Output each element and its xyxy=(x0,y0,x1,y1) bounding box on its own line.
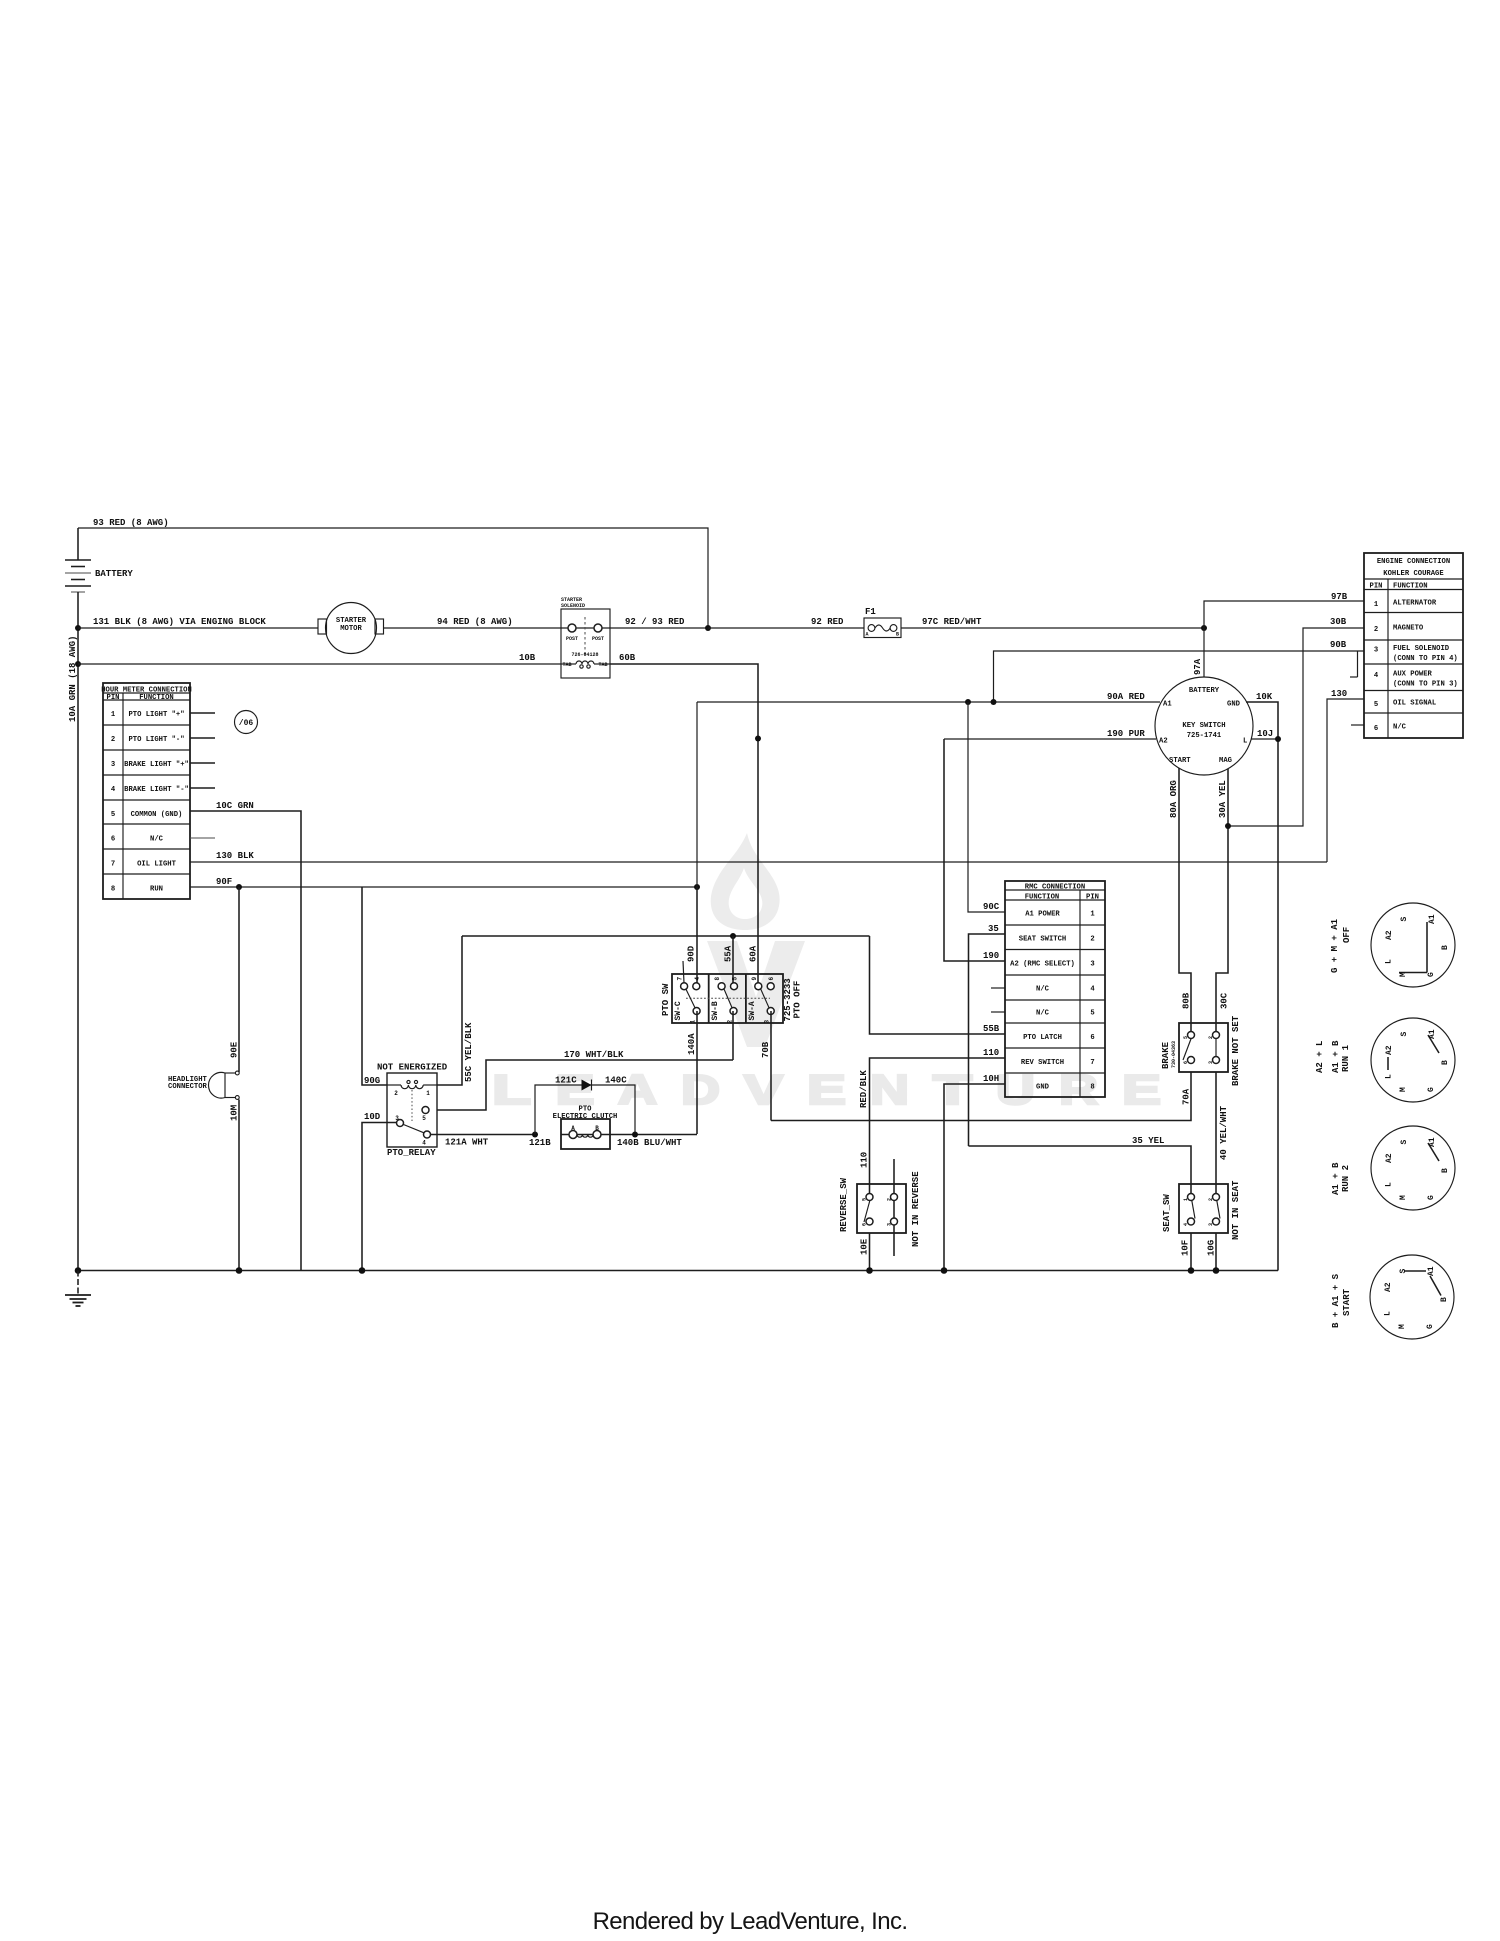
wire 90G xyxy=(362,887,387,1086)
svg-text:8: 8 xyxy=(1090,1084,1094,1092)
svg-text:90C: 90C xyxy=(983,902,1000,912)
svg-text:AUX POWER: AUX POWER xyxy=(1393,671,1433,679)
svg-text:A1: A1 xyxy=(1428,914,1437,924)
svg-text:PTO_RELAY: PTO_RELAY xyxy=(387,1148,436,1158)
svg-text:PTO OFF: PTO OFF xyxy=(793,981,803,1019)
wire 35 stub xyxy=(969,924,1006,1146)
svg-text:60B: 60B xyxy=(619,653,636,663)
svg-text:5: 5 xyxy=(111,811,115,819)
svg-text:N/C: N/C xyxy=(150,836,164,844)
svg-text:L: L xyxy=(1385,959,1394,964)
svg-text:2: 2 xyxy=(886,1198,892,1201)
svg-text:3: 3 xyxy=(1208,1061,1214,1064)
RMC N/C stubs xyxy=(991,988,1005,1012)
svg-text:10C GRN: 10C GRN xyxy=(216,801,254,811)
svg-text:A1: A1 xyxy=(1163,701,1172,709)
fuse F1 xyxy=(864,607,901,638)
svg-text:130: 130 xyxy=(1331,689,1347,699)
wire 55B xyxy=(870,936,1006,1034)
svg-text:725-1741: 725-1741 xyxy=(1187,732,1222,740)
svg-text:55B: 55B xyxy=(983,1024,1000,1034)
svg-text:4: 4 xyxy=(111,786,116,794)
svg-text:N/C: N/C xyxy=(1393,724,1407,732)
wire 40 YEL/WHT xyxy=(1216,1072,1229,1197)
node: bus junction x=944 xyxy=(941,1267,948,1274)
node: battery negative junction xyxy=(75,625,81,631)
svg-text:TAB: TAB xyxy=(562,662,571,668)
svg-text:1: 1 xyxy=(111,711,116,719)
svg-text:2: 2 xyxy=(1090,936,1094,944)
svg-text:NOT IN SEAT: NOT IN SEAT xyxy=(1231,1180,1241,1240)
node: bus junction x=869.5 xyxy=(866,1267,873,1274)
wire 93 RED (8 AWG) xyxy=(78,518,708,628)
svg-text:POST: POST xyxy=(566,636,578,642)
wire 35 YEL xyxy=(969,1136,1192,1197)
svg-text:E: E xyxy=(1122,1066,1161,1113)
svg-text:6: 6 xyxy=(1090,1034,1094,1042)
wire 110 xyxy=(859,1048,1005,1197)
svg-text:2: 2 xyxy=(111,736,115,744)
wire 55 rail xyxy=(462,935,870,937)
svg-text:SW-C: SW-C xyxy=(674,1001,683,1020)
wire 10M xyxy=(230,1100,240,1271)
svg-text:TAB: TAB xyxy=(598,662,607,668)
node: bus junction x=1216 xyxy=(1213,1267,1220,1274)
svg-text:FUNCTION: FUNCTION xyxy=(1393,583,1428,591)
wire 121A WHT xyxy=(431,1135,536,1148)
svg-text:3: 3 xyxy=(1090,961,1094,969)
svg-text:6: 6 xyxy=(1183,1061,1189,1064)
wire 90C xyxy=(968,702,1005,912)
svg-text:G: G xyxy=(1427,972,1436,977)
svg-text:B: B xyxy=(1441,1168,1450,1173)
starter motor xyxy=(318,603,384,654)
svg-text:140B BLU/WHT: 140B BLU/WHT xyxy=(617,1138,682,1148)
svg-text:PTO LATCH: PTO LATCH xyxy=(1023,1034,1062,1042)
wire 190 PUR xyxy=(944,729,1156,739)
svg-text:RUN 2: RUN 2 xyxy=(1341,1165,1351,1192)
svg-text:M: M xyxy=(1398,1324,1407,1329)
wire 30A YEL xyxy=(1216,769,1230,1035)
svg-text:2: 2 xyxy=(1208,1036,1214,1039)
svg-text:4: 4 xyxy=(694,977,701,981)
svg-text:B: B xyxy=(1440,1297,1449,1302)
svg-text:93 RED (8 AWG): 93 RED (8 AWG) xyxy=(93,518,169,528)
engine connection table xyxy=(1364,553,1463,738)
svg-text:Rendered by LeadVenture, Inc.: Rendered by LeadVenture, Inc. xyxy=(593,1908,908,1935)
battery xyxy=(65,560,133,592)
svg-text:110: 110 xyxy=(983,1048,999,1058)
svg-text:90D: 90D xyxy=(687,945,697,962)
wire 90A RED xyxy=(697,692,1160,702)
svg-text:30C: 30C xyxy=(1220,992,1230,1009)
svg-text:70B: 70B xyxy=(761,1041,771,1058)
svg-text:RMC CONNECTION: RMC CONNECTION xyxy=(1025,884,1085,892)
svg-text:10K: 10K xyxy=(1256,692,1273,702)
PTO electric clutch xyxy=(553,1106,618,1150)
svg-text:G: G xyxy=(1426,1324,1435,1329)
svg-text:BRAKE LIGHT "+": BRAKE LIGHT "+" xyxy=(124,761,189,769)
svg-text:7: 7 xyxy=(1090,1059,1094,1067)
svg-text:140C: 140C xyxy=(605,1076,627,1086)
svg-text:40 YEL/WHT: 40 YEL/WHT xyxy=(1219,1105,1229,1160)
svg-text:F1: F1 xyxy=(865,607,876,617)
svg-text:REVERSE_SW: REVERSE_SW xyxy=(839,1177,849,1232)
svg-text:KOHLER COURAGE: KOHLER COURAGE xyxy=(1383,570,1444,578)
svg-text:170 WHT/BLK: 170 WHT/BLK xyxy=(564,1050,624,1060)
wire 10B xyxy=(78,653,561,664)
svg-text:90F: 90F xyxy=(216,877,232,887)
svg-text:PIN: PIN xyxy=(1370,583,1383,591)
svg-text:G: G xyxy=(1427,1195,1436,1200)
svg-text:1: 1 xyxy=(1374,601,1379,609)
svg-text:5: 5 xyxy=(861,1198,867,1201)
svg-text:90B: 90B xyxy=(1330,640,1347,650)
svg-text:S: S xyxy=(1400,917,1409,922)
wire 30B xyxy=(1228,617,1364,826)
svg-text:30A YEL: 30A YEL xyxy=(1218,780,1228,818)
engine pin 6 N/C stub xyxy=(1351,724,1364,726)
svg-text:121B: 121B xyxy=(529,1138,551,1148)
wire 130 xyxy=(1327,689,1364,862)
svg-text:L: L xyxy=(1385,1074,1394,1079)
svg-text:10J: 10J xyxy=(1257,729,1273,739)
svg-text:130 BLK: 130 BLK xyxy=(216,851,254,861)
svg-text:5: 5 xyxy=(1374,701,1378,709)
svg-text:1: 1 xyxy=(1090,911,1095,919)
wire 140B BLU/WHT xyxy=(610,1132,697,1149)
PTO switch 725-3233 xyxy=(661,974,803,1023)
svg-text:730-04363: 730-04363 xyxy=(1171,1041,1177,1068)
ground bus xyxy=(78,1270,1278,1272)
wire 90 vertical xyxy=(696,702,698,887)
svg-text:A: A xyxy=(866,632,869,638)
svg-text:MAGNETO: MAGNETO xyxy=(1393,625,1424,633)
svg-text:M: M xyxy=(1399,972,1408,977)
svg-text:N/C: N/C xyxy=(1036,1010,1050,1018)
wire 90E xyxy=(230,887,240,1072)
svg-text:6: 6 xyxy=(861,1223,867,1226)
svg-text:GND: GND xyxy=(1227,701,1241,709)
svg-text:92 / 93 RED: 92 / 93 RED xyxy=(625,617,685,627)
svg-text:NOT IN REVERSE: NOT IN REVERSE xyxy=(911,1171,921,1247)
svg-text:3: 3 xyxy=(886,1223,892,1226)
svg-text:4: 4 xyxy=(1374,672,1379,680)
node: 97 junction xyxy=(1201,625,1207,631)
svg-text:CONNECTOR: CONNECTOR xyxy=(168,1083,208,1091)
svg-text:B + A1 + S: B + A1 + S xyxy=(1331,1273,1341,1328)
svg-text:PIN: PIN xyxy=(1086,894,1099,902)
PTO switch contacts xyxy=(677,977,776,1024)
wire 97B xyxy=(1204,592,1364,628)
svg-text:SW-A: SW-A xyxy=(748,1001,757,1020)
svg-text:5: 5 xyxy=(1090,1010,1094,1018)
svg-text:97A: 97A xyxy=(1193,658,1203,675)
svg-text:70A: 70A xyxy=(1182,1088,1192,1105)
svg-text:94 RED (8 AWG): 94 RED (8 AWG) xyxy=(437,617,513,627)
svg-text:SEAT SWITCH: SEAT SWITCH xyxy=(1019,936,1066,944)
svg-text:2: 2 xyxy=(394,1090,398,1097)
svg-text:RUN: RUN xyxy=(150,886,163,894)
svg-text:2: 2 xyxy=(1208,1198,1214,1201)
svg-text:121C: 121C xyxy=(555,1076,577,1086)
svg-text:3: 3 xyxy=(764,1020,771,1024)
svg-text:55A: 55A xyxy=(724,945,734,962)
svg-text:L: L xyxy=(1384,1311,1393,1316)
wire 55A xyxy=(724,936,734,985)
node: 30B tap on MAG wire xyxy=(1225,823,1231,829)
svg-text:7: 7 xyxy=(677,977,684,981)
node: bus junction x=1191 xyxy=(1188,1267,1195,1274)
svg-text:N: N xyxy=(870,1066,909,1113)
svg-text:STARTER: STARTER xyxy=(336,617,367,625)
ground symbol xyxy=(65,1271,91,1307)
svg-text:190: 190 xyxy=(983,951,999,961)
svg-text:S: S xyxy=(1400,1032,1409,1037)
svg-text:92 RED: 92 RED xyxy=(811,617,844,627)
wire to PTO pin 2 xyxy=(732,1011,734,1060)
svg-text:ENGINE CONNECTION: ENGINE CONNECTION xyxy=(1377,558,1450,566)
node: bus junction x=362 xyxy=(359,1267,366,1274)
svg-text:90E: 90E xyxy=(230,1041,240,1058)
svg-text:NOT ENERGIZED: NOT ENERGIZED xyxy=(377,1063,448,1073)
node: headlight tap xyxy=(236,884,242,890)
svg-text:FUEL SOLENOID: FUEL SOLENOID xyxy=(1393,645,1450,653)
svg-text:1: 1 xyxy=(426,1090,430,1097)
svg-text:B: B xyxy=(896,632,899,638)
svg-text:80A ORG: 80A ORG xyxy=(1169,780,1179,818)
svg-text:10B: 10B xyxy=(519,653,536,663)
svg-text:A1: A1 xyxy=(1428,1029,1437,1039)
svg-text:30B: 30B xyxy=(1330,617,1347,627)
svg-text:4: 4 xyxy=(1183,1223,1189,1226)
wire 10A GRN (18 AWG) left rail xyxy=(68,528,78,1271)
svg-text:S: S xyxy=(1400,1140,1409,1145)
svg-text:3: 3 xyxy=(1208,1223,1214,1226)
svg-text:PIN: PIN xyxy=(107,694,120,702)
node: junction 92/93 at 708,628 xyxy=(705,625,711,631)
svg-text:T: T xyxy=(933,1066,973,1113)
PTO switch pin 7 stub xyxy=(683,961,684,983)
svg-text:6: 6 xyxy=(768,977,775,981)
svg-text:S: S xyxy=(1399,1269,1408,1274)
svg-text:1: 1 xyxy=(690,1020,697,1024)
wire 131 BLK xyxy=(78,617,318,628)
svg-text:121A WHT: 121A WHT xyxy=(445,1138,489,1148)
key position RUN 2 xyxy=(1331,1126,1455,1210)
svg-text:OIL SIGNAL: OIL SIGNAL xyxy=(1393,700,1436,708)
svg-text:97C RED/WHT: 97C RED/WHT xyxy=(922,617,982,627)
svg-text:A2: A2 xyxy=(1384,1282,1393,1292)
svg-text:80B: 80B xyxy=(1182,992,1192,1009)
wire 10D xyxy=(362,1112,397,1271)
svg-text:5: 5 xyxy=(731,977,738,981)
svg-text:2: 2 xyxy=(1374,626,1378,634)
svg-text:BRAKE: BRAKE xyxy=(1161,1041,1171,1069)
svg-text:B: B xyxy=(1441,1060,1450,1065)
svg-text:90G: 90G xyxy=(364,1076,380,1086)
seat switch xyxy=(1162,1180,1241,1240)
svg-text:725-3233: 725-3233 xyxy=(783,978,793,1021)
hour meter N/C stub pin 6 xyxy=(190,837,215,839)
wire 97C RED/WHT xyxy=(901,617,1204,628)
svg-text:GND: GND xyxy=(1036,1084,1050,1092)
svg-text:A: A xyxy=(571,1125,575,1132)
key switch 725-1741 xyxy=(1155,677,1253,775)
svg-text:START: START xyxy=(1169,757,1191,765)
svg-text:A2 + L: A2 + L xyxy=(1315,1041,1325,1073)
wire 90B xyxy=(994,640,1365,702)
wire 190 xyxy=(944,739,1005,961)
svg-text:10A GRN (18 AWG): 10A GRN (18 AWG) xyxy=(68,636,78,722)
svg-text:L: L xyxy=(1385,1182,1394,1187)
node 121B xyxy=(529,1132,551,1149)
svg-text:726-04128: 726-04128 xyxy=(571,652,598,658)
svg-text:6: 6 xyxy=(1374,725,1378,733)
svg-text:START: START xyxy=(1342,1288,1352,1316)
svg-text:7: 7 xyxy=(111,861,115,869)
brake switch 730-04363 xyxy=(1161,1015,1241,1086)
svg-text:SEAT_SW: SEAT_SW xyxy=(1162,1194,1172,1232)
wire 140A xyxy=(687,1011,697,1134)
key position START xyxy=(1331,1255,1454,1339)
svg-text:OIL LIGHT: OIL LIGHT xyxy=(137,861,177,869)
svg-text:A1: A1 xyxy=(1428,1137,1437,1147)
svg-text:N/C: N/C xyxy=(1036,986,1050,994)
svg-text:MOTOR: MOTOR xyxy=(340,625,362,633)
svg-text:E: E xyxy=(807,1066,846,1113)
svg-text:97B: 97B xyxy=(1331,592,1348,602)
wire 97A xyxy=(1193,628,1204,677)
svg-text:D: D xyxy=(681,1066,720,1113)
svg-text:MAG: MAG xyxy=(1219,757,1232,765)
reverse switch xyxy=(839,1159,921,1256)
svg-text:3: 3 xyxy=(1374,647,1378,655)
svg-text:140A: 140A xyxy=(687,1033,697,1055)
svg-text:1: 1 xyxy=(1183,1198,1189,1201)
svg-text:110: 110 xyxy=(860,1152,870,1168)
svg-text:5: 5 xyxy=(1183,1036,1189,1039)
diode D1 branch xyxy=(535,1076,635,1135)
svg-text:10G: 10G xyxy=(1207,1240,1217,1256)
svg-text:L: L xyxy=(492,1066,531,1113)
svg-text:PTO LIGHT "+": PTO LIGHT "+" xyxy=(128,711,184,719)
hour meter connection table xyxy=(101,683,192,899)
relay contacts xyxy=(395,1107,430,1147)
svg-text:ELECTRIC CLUTCH: ELECTRIC CLUTCH xyxy=(553,1113,618,1121)
svg-text:4: 4 xyxy=(1090,986,1095,994)
svg-text:BRAKE NOT SET: BRAKE NOT SET xyxy=(1231,1015,1241,1086)
svg-text:FUNCTION: FUNCTION xyxy=(1025,894,1060,902)
svg-text:FUNCTION: FUNCTION xyxy=(139,694,174,702)
node: 90 junction at PTO feed xyxy=(694,884,700,890)
node: bus junction x=239 xyxy=(236,1267,243,1274)
wire 10K xyxy=(1246,692,1278,1271)
wire 90F xyxy=(190,877,697,887)
svg-text:190 PUR: 190 PUR xyxy=(1107,729,1145,739)
node: 55A tap xyxy=(730,933,736,939)
svg-text:KEY SWITCH: KEY SWITCH xyxy=(1182,722,1225,730)
svg-text:OFF: OFF xyxy=(1342,927,1352,943)
svg-text:SW-B: SW-B xyxy=(711,1001,720,1020)
wire 10C GRN xyxy=(190,801,301,1271)
svg-text:POST: POST xyxy=(592,636,604,642)
wire 10J xyxy=(1251,729,1278,739)
wire 130 BLK xyxy=(190,851,1327,862)
wire 10E xyxy=(860,1233,870,1271)
svg-text:(CONN TO PIN 3): (CONN TO PIN 3) xyxy=(1393,681,1458,689)
svg-text:B: B xyxy=(1441,945,1450,950)
svg-text:A1 + B: A1 + B xyxy=(1331,1040,1341,1073)
svg-text:A2: A2 xyxy=(1385,1045,1394,1055)
svg-text:90A RED: 90A RED xyxy=(1107,692,1145,702)
wire 60B xyxy=(610,653,758,985)
svg-text:A1 POWER: A1 POWER xyxy=(1025,911,1060,919)
svg-text:SOLENOID: SOLENOID xyxy=(561,603,585,609)
svg-text:REV SWITCH: REV SWITCH xyxy=(1021,1059,1064,1067)
svg-text:3: 3 xyxy=(111,761,115,769)
headlight connector xyxy=(168,1071,239,1099)
svg-text:BRAKE LIGHT "-": BRAKE LIGHT "-" xyxy=(124,786,189,794)
svg-text:5: 5 xyxy=(422,1115,426,1122)
starter solenoid xyxy=(561,597,610,678)
wire 170 WHT/BLK xyxy=(430,1050,734,1110)
node: 90B tap xyxy=(991,699,997,705)
svg-text:10D: 10D xyxy=(364,1112,381,1122)
node: bus junction x=78 xyxy=(75,1267,82,1274)
svg-text:BATTERY: BATTERY xyxy=(95,569,133,579)
svg-text:V: V xyxy=(744,1066,783,1113)
svg-text:A2 (RMC SELECT): A2 (RMC SELECT) xyxy=(1010,961,1075,969)
svg-text:PTO SW: PTO SW xyxy=(661,983,671,1016)
svg-text:G: G xyxy=(1427,1087,1436,1092)
node: 10J joins 10K xyxy=(1275,736,1281,742)
svg-text:10E: 10E xyxy=(860,1238,870,1255)
svg-text:G + M + A1: G + M + A1 xyxy=(1330,918,1340,973)
svg-text:A1 + B: A1 + B xyxy=(1331,1162,1341,1195)
node: dot on 60A vertical xyxy=(755,736,761,742)
wire 10H xyxy=(944,1074,1005,1271)
svg-text:9: 9 xyxy=(751,977,758,981)
key position RUN 1 xyxy=(1315,1018,1455,1102)
wire 90D xyxy=(687,887,698,985)
svg-text:/06: /06 xyxy=(239,719,254,728)
svg-text:60A: 60A xyxy=(749,945,759,962)
svg-text:A2: A2 xyxy=(1159,738,1168,746)
svg-text:L: L xyxy=(1243,738,1247,746)
svg-text:BATTERY: BATTERY xyxy=(1189,687,1220,695)
wire 10G xyxy=(1207,1233,1217,1271)
svg-text:A2: A2 xyxy=(1385,1153,1394,1163)
svg-text:RED/BLK: RED/BLK xyxy=(859,1070,869,1108)
svg-text:A1: A1 xyxy=(1427,1266,1436,1276)
svg-text:10M: 10M xyxy=(230,1105,240,1121)
svg-text:55C YEL/BLK: 55C YEL/BLK xyxy=(464,1022,474,1082)
indicator /06 xyxy=(235,711,258,734)
key position OFF xyxy=(1330,903,1455,987)
svg-text:10F: 10F xyxy=(1181,1240,1191,1256)
wire 70A xyxy=(771,1072,1192,1121)
svg-text:8: 8 xyxy=(714,977,721,981)
svg-text:35 YEL: 35 YEL xyxy=(1132,1136,1164,1146)
svg-text:10H: 10H xyxy=(983,1074,999,1084)
wire 80A ORG xyxy=(1169,768,1192,1035)
wire 92 RED xyxy=(708,617,864,628)
svg-text:3: 3 xyxy=(395,1115,399,1122)
wire 10F xyxy=(1181,1233,1192,1271)
svg-text:PTO LIGHT "-": PTO LIGHT "-" xyxy=(128,736,184,744)
node: 90C tap xyxy=(965,699,971,705)
